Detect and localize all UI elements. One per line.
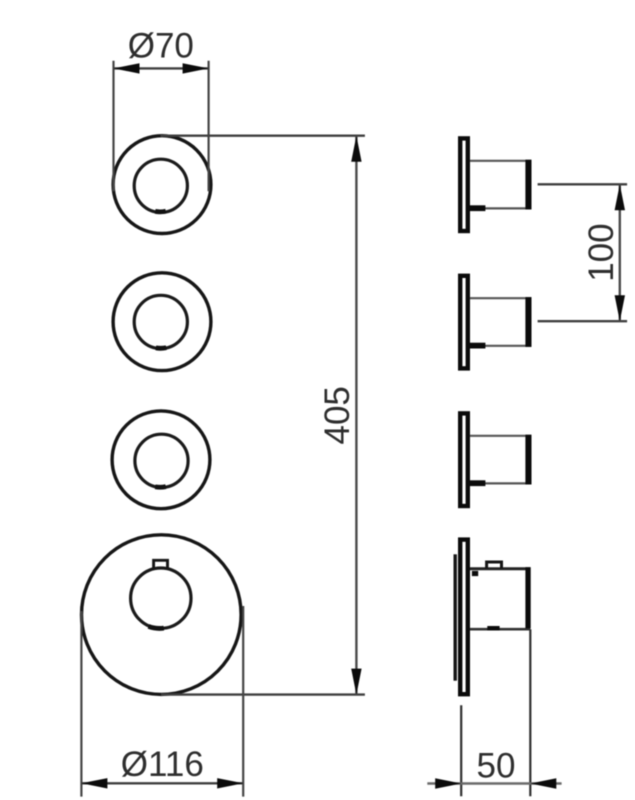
side view: knob 3 wall plate	[460, 413, 468, 506]
svg-text:Ø116: Ø116	[121, 745, 204, 784]
dimension Ø70 extension line left	[112, 61, 114, 192]
dimension Ø116 arrow left	[81, 778, 107, 788]
side view: knob 1 body bottom edge	[470, 207, 532, 209]
side view: knob 4 top-left screw mark	[472, 571, 478, 576]
front view: knob 2 inner circle	[134, 295, 187, 348]
side view: knob 2 body bottom edge	[470, 345, 532, 347]
dimension Ø70 arrow left	[114, 63, 140, 73]
dimension 100 arrow up	[615, 184, 625, 210]
dimension Ø116 extension line left	[80, 611, 82, 797]
front view: knob 1 outer circle (escutcheon Ø70)	[113, 136, 211, 234]
side view: knob 2 wall plate	[460, 276, 468, 369]
knob 1 handle index mark	[155, 209, 166, 214]
side view: knob 4 top notch	[487, 562, 502, 569]
dimension 100 arrow down	[615, 295, 625, 321]
side view: knob 3 face bar	[525, 435, 531, 485]
dimension 405 arrow down	[351, 669, 361, 695]
dimension Ø116 extension line right	[242, 606, 244, 797]
side view: knob 2 base tick	[470, 343, 486, 349]
side view: knob 4 body bottom edge	[470, 628, 531, 631]
dimension Ø70 arrow right	[183, 63, 209, 73]
svg-text:405: 405	[318, 386, 357, 444]
front view: knob 4 outer circle (escutcheon Ø116)	[82, 535, 242, 695]
side view: knob 1 wall plate	[460, 138, 468, 231]
dimension 405 bottom reference line	[161, 693, 365, 695]
dimension 50 dimension line	[427, 782, 561, 785]
dimension Ø70 dimension line	[114, 67, 209, 69]
dimension 100 bottom reference line	[538, 320, 628, 322]
front view: knob 3 inner circle	[135, 434, 188, 487]
side view: knob 1 base tick	[470, 205, 486, 211]
front view: knob 4 inner circle (thermostat handle)	[131, 568, 191, 628]
side view: knob 4 wall plate	[460, 540, 468, 695]
front view: knob 1 inner circle (handle)	[134, 159, 187, 212]
knob 2 handle index mark	[156, 345, 167, 350]
side view: knob 4 bottom tick	[487, 626, 499, 631]
front view: knob 2 outer circle	[113, 273, 211, 371]
dimension 405 top reference line	[161, 134, 365, 136]
svg-text:50: 50	[477, 747, 516, 786]
dimension 100 dimension line	[619, 184, 621, 321]
knob 4 top notch	[154, 560, 168, 568]
side view: knob 3 body bottom edge	[470, 482, 532, 484]
svg-text:100: 100	[582, 223, 621, 281]
side view: knob 1 face bar	[525, 160, 531, 210]
svg-text:Ø70: Ø70	[128, 26, 194, 65]
side view: knob 2 body top edge	[470, 297, 532, 299]
dimension Ø116 arrow right	[217, 778, 243, 788]
side view: knob 2 face bar	[525, 297, 531, 347]
side view: knob 4 face bar	[525, 567, 530, 628]
side view: knob 3 body top edge	[470, 435, 532, 437]
dimension 100 top reference line	[538, 183, 628, 185]
dimension 50 arrow left (outside)	[435, 778, 461, 788]
dimension 405 arrow up	[351, 136, 361, 162]
side view: knob 3 base tick	[470, 480, 486, 486]
side view: knob 1 body top edge	[470, 160, 532, 162]
side view: knob 4 rear flange bar	[454, 554, 457, 680]
knob 3 handle index mark	[155, 484, 166, 489]
dimension 50 arrow right (outside)	[530, 778, 556, 788]
dimension Ø70 extension line right	[208, 61, 210, 192]
dimension 50 extension line right	[529, 629, 531, 796]
dimension Ø116 dimension line	[81, 782, 243, 784]
knob 4 handle index mark	[149, 626, 164, 628]
side view: knob 4 body top edge	[470, 567, 531, 570]
dimension 50 extension line left	[460, 705, 462, 796]
dimension 405 dimension line	[355, 136, 357, 695]
front view: knob 3 outer circle	[112, 411, 210, 509]
